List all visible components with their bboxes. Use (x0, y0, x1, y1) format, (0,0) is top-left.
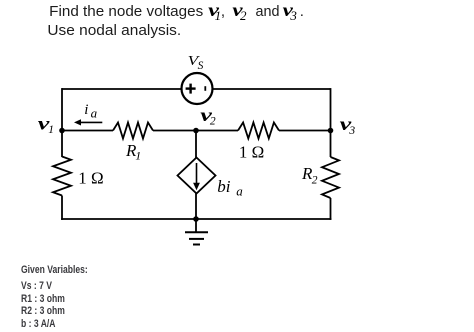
svg-text:1: 1 (135, 149, 141, 163)
svg-text:S: S (198, 60, 204, 72)
wire left vertical lower (61, 196, 63, 220)
junction dot ground node (193, 216, 199, 222)
wire middle vertical upper (195, 131, 197, 159)
wire top rail left segment (62, 88, 182, 90)
wire middle vertical lower (195, 194, 197, 220)
voltage source minus marker (rotated dash) (204, 86, 206, 91)
svg-text:a: a (91, 105, 98, 120)
ground stub wire (195, 219, 197, 232)
dependent source arrow (193, 163, 200, 190)
label Vs (188, 54, 204, 72)
wire v1 to R1 (62, 130, 113, 132)
svg-text:1 Ω: 1 Ω (239, 142, 264, 161)
ground symbol bars (185, 232, 208, 244)
resistor 1 ohm horizontal zigzag (238, 123, 279, 139)
title line 1 (49, 0, 304, 23)
wire 1 ohm to v3 (279, 130, 331, 132)
label R2 (301, 164, 318, 186)
wire top rail right segment (213, 88, 331, 90)
label v1 (38, 114, 54, 136)
wire R1 to v2 (153, 130, 238, 132)
svg-text:Use nodal analysis.: Use nodal analysis. (47, 22, 181, 39)
svg-text:2: 2 (240, 8, 247, 23)
label v2 (200, 105, 216, 128)
resistor 1 ohm left vertical zigzag (53, 157, 71, 196)
svg-text:2: 2 (210, 116, 216, 128)
svg-text:bi: bi (217, 177, 231, 196)
wire bottom rail (61, 218, 331, 220)
svg-text:1 Ω: 1 Ω (78, 168, 103, 187)
svg-text:a: a (236, 183, 243, 198)
wire right vertical lower (330, 198, 332, 220)
voltage source Vs circle (182, 73, 213, 104)
node v2 (193, 128, 199, 134)
dependent current source bia diamond (178, 158, 216, 194)
svg-text:Find the node voltages: Find the node voltages (49, 3, 203, 20)
svg-text:1: 1 (48, 124, 54, 136)
node v3 (328, 128, 334, 134)
resistor R2 zigzag (322, 157, 339, 198)
label R1 (125, 141, 141, 162)
svg-text:2: 2 (312, 175, 318, 187)
svg-text:.: . (300, 3, 304, 20)
svg-text:3: 3 (289, 8, 297, 23)
wire right vertical upper (330, 88, 332, 157)
svg-text:i: i (84, 102, 88, 118)
wire left vertical upper (61, 88, 63, 157)
given variables text (21, 264, 88, 331)
voltage source plus marker (186, 84, 196, 94)
current arrow ia (74, 119, 102, 125)
svg-text:and: and (256, 3, 280, 20)
resistor R1 zigzag (113, 123, 153, 139)
label ia (84, 102, 97, 120)
label bia (217, 177, 243, 198)
svg-text:,: , (221, 3, 225, 20)
node v1 (59, 128, 65, 134)
label v3 (340, 114, 356, 137)
svg-text:3: 3 (348, 125, 355, 137)
